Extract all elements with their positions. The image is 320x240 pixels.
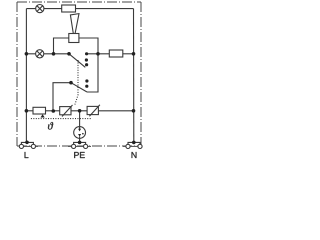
thermal sense line (dotted): [31, 118, 91, 120]
wire S1 contact to node: [87, 53, 110, 55]
node terminal N: [132, 141, 136, 145]
disconnector wedge: [70, 14, 79, 34]
label PE: [74, 152, 85, 158]
terminal PE: [72, 142, 88, 148]
node S1 contact c: [85, 63, 88, 66]
varistor RV2: [87, 105, 100, 117]
varistor RV1: [60, 105, 73, 117]
wire L column: [25, 9, 27, 143]
lamp H1: [36, 5, 44, 13]
node row3-N: [132, 109, 136, 113]
wire between varistors: [71, 110, 87, 112]
node row2-N: [132, 52, 136, 56]
enclosure border (dash-dot): [17, 2, 141, 146]
wire row2: [26, 53, 69, 55]
wire box output to node: [79, 38, 98, 92]
switch S1 blade: [69, 54, 85, 68]
wire N column: [133, 9, 135, 143]
wire spark gap column: [79, 111, 81, 127]
lamp H2: [36, 50, 44, 58]
resistor R2: [109, 50, 123, 57]
node terminal L: [25, 141, 29, 145]
wire R3 to varistor: [46, 110, 60, 112]
wire row3: [26, 110, 33, 112]
resistor R1: [62, 5, 76, 12]
switch S2 blade: [71, 83, 87, 92]
label N: [132, 152, 137, 158]
wire switch S2 feed: [53, 83, 71, 111]
spark gap F1: [74, 127, 86, 139]
resistor R3: [33, 107, 46, 114]
node S1 contact a: [85, 52, 88, 55]
node S1 pivot: [67, 52, 71, 56]
thermal arrow: [41, 114, 45, 117]
mechanical link (dotted): [75, 60, 78, 105]
label L: [25, 152, 29, 158]
wire top row: [26, 8, 133, 10]
node terminal PE: [78, 141, 82, 145]
node S2 pivot: [69, 81, 73, 85]
node S2 contact a: [85, 79, 88, 82]
wire spark gap to PE: [79, 138, 81, 142]
node row3-L: [25, 109, 29, 113]
disconnector box U1: [69, 34, 79, 43]
node S1 contact b: [85, 58, 88, 61]
node S2 contact b: [85, 85, 88, 88]
node row2-L: [25, 52, 29, 56]
node box output: [96, 52, 100, 56]
wire row3 to N column: [98, 110, 133, 112]
wire bottom border through terminals: [24, 145, 138, 147]
node box feed: [52, 52, 56, 56]
label theta: [48, 122, 53, 129]
wire box feed from row2: [54, 38, 69, 54]
terminal L: [19, 142, 35, 148]
terminal N: [126, 142, 142, 148]
node S2 feed row3: [52, 109, 56, 113]
wire R2 to N column: [123, 53, 134, 55]
node spark gap tap: [78, 109, 82, 113]
